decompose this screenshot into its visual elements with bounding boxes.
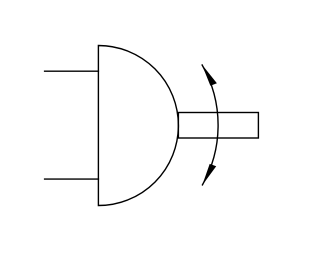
- rotation arrow arc: [202, 64, 218, 185]
- arrowhead bottom: [202, 164, 216, 186]
- wire: bottom port line: [44, 178, 99, 180]
- semi-rotary actuator body (semicircle): [98, 46, 178, 206]
- wire: top port line: [44, 70, 99, 72]
- shaft rectangle: [178, 113, 258, 139]
- arrowhead top: [202, 64, 217, 85]
